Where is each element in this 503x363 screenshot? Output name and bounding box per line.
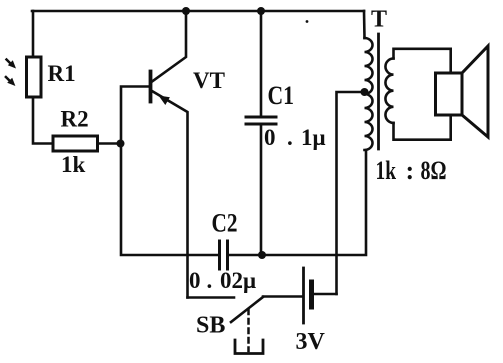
- wire secondary bottom to speaker: [394, 115, 451, 140]
- wire C1 lower lead: [260, 124, 263, 255]
- transformer T secondary winding: [385, 59, 393, 123]
- wire bottom rail C2 to primary lead: [229, 150, 366, 255]
- wire top rail to primary top: [363, 11, 366, 38]
- wire secondary top to speaker: [394, 49, 451, 73]
- switch SB button cap: [235, 340, 263, 354]
- scan speck: [306, 20, 309, 23]
- svg-text:C1: C1: [268, 81, 295, 110]
- wire battery riser to transformer tap: [337, 92, 365, 294]
- switch SB actuator dashed link: [247, 310, 250, 352]
- svg-text:0.1μ: 0.1μ: [264, 125, 326, 150]
- speaker driver box: [436, 73, 463, 115]
- wire base lead: [121, 87, 148, 144]
- svg-text:R2: R2: [61, 107, 89, 132]
- wire R2 to base node: [98, 142, 122, 145]
- node C1 bottom junction: [258, 251, 266, 259]
- svg-text:1k:8Ω: 1k:8Ω: [376, 156, 447, 185]
- transistor VT emitter lead: [152, 91, 188, 298]
- capacitor C1: [246, 116, 276, 119]
- svg-text:R1: R1: [48, 61, 76, 86]
- light arrow 1: [7, 60, 11, 64]
- resistor R2: [53, 136, 98, 151]
- wire battery to riser: [313, 293, 337, 296]
- speaker cone: [462, 46, 488, 137]
- transistor VT base bar: [149, 72, 153, 102]
- svg-text:3V: 3V: [296, 329, 326, 355]
- node transformer tap: [361, 88, 369, 96]
- light arrow 2: [6, 77, 10, 81]
- switch SB blade: [231, 297, 263, 322]
- wire top rail: [32, 10, 364, 13]
- resistor R1: [27, 57, 42, 97]
- wire emitter bottom to switch: [188, 296, 235, 299]
- transistor VT emitter arrow: [159, 96, 170, 106]
- node C1 top on top rail: [257, 7, 265, 15]
- wire C1 upper lead: [260, 11, 263, 116]
- wire base node down to bottom rail: [121, 144, 218, 256]
- svg-text:T: T: [371, 7, 387, 33]
- wire left vertical to R1: [32, 11, 35, 57]
- capacitor C2: [218, 241, 221, 269]
- node collector on top rail: [182, 7, 190, 15]
- battery short plate: [309, 282, 314, 307]
- svg-text:C2: C2: [212, 209, 238, 238]
- wire R1 bottom lead: [33, 97, 53, 144]
- svg-text:1k: 1k: [61, 152, 86, 177]
- svg-text:VT: VT: [193, 68, 225, 93]
- svg-text:SB: SB: [196, 313, 225, 339]
- transistor VT collector lead: [152, 11, 186, 82]
- node base junction: [117, 140, 125, 148]
- transformer T primary winding: [365, 38, 373, 150]
- wire switch to battery: [263, 295, 302, 298]
- battery long plate: [302, 268, 305, 323]
- transformer T core: [377, 34, 380, 149]
- svg-text:0.02μ: 0.02μ: [189, 268, 256, 293]
